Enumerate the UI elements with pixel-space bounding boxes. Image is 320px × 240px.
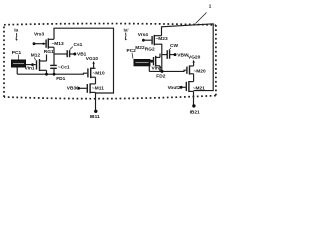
svg-text:~M23: ~M23	[156, 36, 168, 42]
svg-text:RG2: RG2	[145, 46, 155, 52]
svg-text:~M21: ~M21	[193, 86, 205, 92]
svg-text:RG1: RG1	[44, 49, 54, 55]
svg-text:PC1: PC1	[12, 50, 22, 56]
svg-text:IB21: IB21	[190, 110, 200, 116]
svg-text:IB11: IB11	[90, 114, 100, 120]
svg-text:Vrs4: Vrs4	[138, 32, 148, 38]
svg-text:FD1: FD1	[56, 76, 65, 82]
svg-text:Vout2: Vout2	[168, 85, 181, 91]
svg-text:FD2: FD2	[156, 74, 165, 80]
svg-text:VG20: VG20	[188, 55, 201, 61]
svg-text:PC2: PC2	[127, 48, 137, 54]
svg-text:Vrs3: Vrs3	[34, 31, 44, 37]
svg-text:Vin1: Vin1	[25, 65, 35, 71]
svg-text:VG10: VG10	[86, 56, 99, 62]
svg-text:CW: CW	[170, 43, 178, 49]
svg-text:Vin2: Vin2	[152, 66, 162, 72]
svg-text:~M11: ~M11	[92, 85, 104, 91]
svg-text:~Cc1: ~Cc1	[58, 65, 70, 71]
svg-text:~M13: ~M13	[52, 41, 64, 47]
svg-text:M12: M12	[31, 53, 41, 59]
svg-text:Ia: Ia	[14, 28, 18, 34]
svg-text:Cs1: Cs1	[74, 42, 83, 48]
svg-text:~M20: ~M20	[194, 68, 206, 74]
svg-text:1: 1	[209, 4, 212, 9]
svg-text:~M10: ~M10	[93, 70, 105, 76]
svg-text:Ia': Ia'	[124, 27, 129, 33]
svg-text:VB30: VB30	[67, 86, 79, 92]
svg-text:M22: M22	[135, 45, 145, 51]
